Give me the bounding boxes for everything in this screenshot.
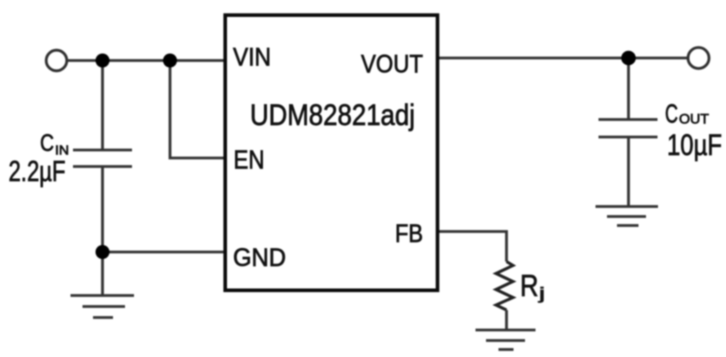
svg-text:2.2µF: 2.2µF (9, 156, 66, 188)
output terminal (688, 48, 709, 69)
IC body U1 (225, 15, 437, 290)
svg-text:EN: EN (234, 145, 265, 175)
svg-text:R: R (520, 268, 539, 303)
svg-text:C: C (665, 99, 678, 129)
svg-text:10µF: 10µF (667, 129, 722, 162)
wire FB pin (437, 232, 507, 262)
svg-text:FB: FB (395, 220, 423, 248)
svg-text:C: C (40, 130, 54, 157)
wire node to ground (101, 252, 104, 296)
svg-text:j: j (537, 284, 545, 303)
wire VOUT to output (437, 57, 688, 60)
wire EN loop (170, 61, 225, 159)
ground symbol resistor (476, 330, 536, 350)
node VIN junction 2 (163, 54, 177, 68)
wire cap to gnd node (101, 167, 104, 253)
node GND junction (96, 245, 110, 259)
wire input to VIN pin (68, 59, 226, 62)
svg-text:UDM82821adj: UDM82821adj (250, 99, 415, 132)
resistor Rj (496, 262, 513, 311)
wire to COUT (627, 58, 630, 120)
capacitor CIN bottom plate (73, 165, 132, 168)
node VIN junction 1 (96, 54, 110, 68)
node VOUT junction (621, 51, 636, 66)
svg-text:OUT: OUT (679, 111, 709, 127)
svg-text:GND: GND (233, 244, 286, 272)
wire resistor to ground (505, 310, 508, 330)
wire GND pin (103, 251, 226, 254)
wire input cap top (101, 61, 104, 151)
junction node dots (96, 51, 636, 259)
ground symbol right (596, 207, 659, 226)
wire COUT to ground (627, 137, 630, 207)
input terminal (46, 50, 67, 71)
capacitor COUT top plate (599, 118, 658, 121)
svg-text:VOUT: VOUT (361, 51, 423, 79)
capacitor COUT bottom plate (599, 136, 658, 139)
svg-text:VIN: VIN (233, 44, 271, 72)
capacitor CIN top plate (73, 149, 132, 152)
ground symbol left (71, 296, 135, 318)
